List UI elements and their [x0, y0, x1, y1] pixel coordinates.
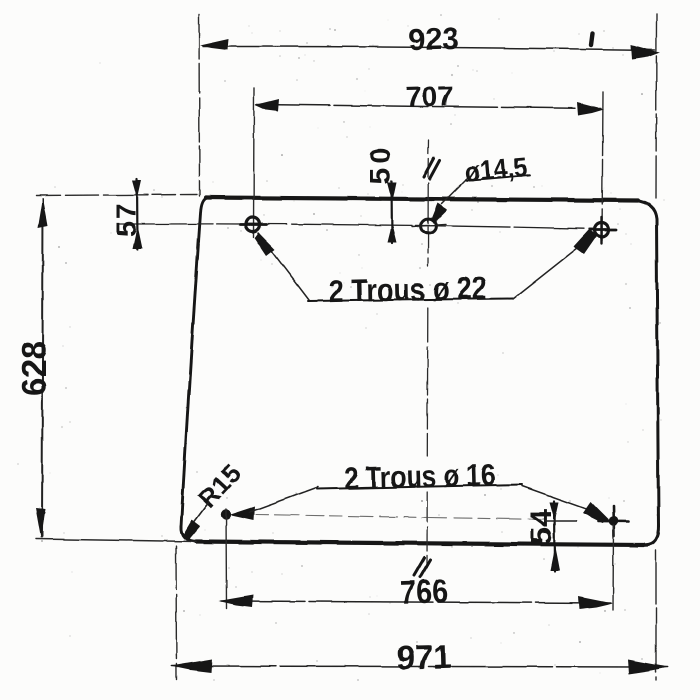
- dim 766: left arrowhead: [219, 595, 254, 607]
- dim 50: lower arrowhead: [388, 223, 398, 243]
- hole bottom-right: filled dot: [609, 516, 619, 526]
- label 2 Trous o16: left leader line: [250, 487, 318, 512]
- svg-text:707: 707: [405, 80, 454, 112]
- svg-text:628: 628: [16, 341, 54, 396]
- label R15: leader arrowhead: [182, 520, 201, 540]
- label 2 Trous o22: left leader arrowhead: [255, 233, 276, 257]
- dim 923: dimension line: [203, 47, 655, 51]
- svg-text:2 Trous ø 22: 2 Trous ø 22: [328, 270, 487, 309]
- svg-text:50: 50: [365, 148, 397, 184]
- dim 707: right extension line: [602, 92, 603, 240]
- dim 628: bottom arrowhead: [36, 508, 46, 539]
- dim 54: hole-level tick: [545, 520, 576, 522]
- dim 57: lower arrowhead: [133, 226, 143, 249]
- label R15: leader line: [191, 502, 209, 526]
- dim 50: upper arrowhead: [387, 182, 397, 202]
- dim 971: left extension line: [175, 546, 178, 680]
- svg-text:2 Trous ø 16: 2 Trous ø 16: [344, 457, 496, 496]
- dim 57: upper arrowhead: [133, 180, 142, 198]
- dim 628: dimension line: [42, 199, 43, 537]
- dim 57: dimension line: [136, 179, 139, 249]
- hole bottom-right: cross ticks: [599, 506, 629, 536]
- label 2 Trous o16: underline: [317, 485, 522, 490]
- svg-text:R15: R15: [192, 458, 246, 513]
- dim 54: lower arrowhead: [550, 546, 560, 571]
- top holes row centerline: [119, 224, 596, 229]
- hole bottom-left: filled dot: [221, 509, 231, 519]
- dim 923: right arrowhead: [631, 45, 660, 60]
- part outline: bottom-left corner: [181, 526, 197, 542]
- dim 971: right extension line: [655, 550, 657, 680]
- label 2 Trous o16: right leader arrowhead: [583, 502, 609, 524]
- vertical centerline: [427, 140, 430, 178]
- svg-text:971: 971: [396, 638, 452, 676]
- part outline: top edge: [206, 198, 638, 201]
- label o14,5: leader arrowhead: [431, 203, 448, 223]
- hole top-right: circle: [595, 223, 609, 237]
- dim 50: dimension line: [390, 181, 393, 243]
- dim 628: top arrowhead: [38, 198, 48, 228]
- dim 628: bottom extension line: [36, 539, 196, 542]
- dim 971: left arrowhead: [171, 659, 213, 673]
- dim 57: top extension (dashed, at top edge level): [36, 195, 197, 196]
- hole top middle: circle: [421, 219, 436, 234]
- svg-text:923: 923: [408, 21, 459, 57]
- label 2 Trous o22: underline: [308, 299, 513, 302]
- bottom holes row line (faint): [256, 515, 545, 520]
- label o14,5: underline: [466, 175, 530, 181]
- hole top-right: vertical tick: [600, 217, 602, 243]
- dim 923: right extension line: [655, 14, 658, 198]
- centerline break mark (bottom): [414, 558, 431, 578]
- dim 707: dimension line: [256, 105, 601, 109]
- centerline break mark (top): [424, 159, 440, 180]
- label 2 Trous o22: right leader arrowhead: [574, 230, 598, 255]
- part outline: top-right corner and right edge: [635, 201, 659, 528]
- dim 707: left arrowhead: [255, 99, 279, 112]
- part outline: bottom-right corner: [645, 525, 659, 545]
- label 2 Trous o22: left leader line: [258, 233, 309, 300]
- dim 54: dimension line: [553, 501, 556, 571]
- dim 766: left extension line: [225, 509, 228, 608]
- hole top-left: circle: [246, 218, 260, 232]
- label 2 Trous o16: left leader arrowhead: [229, 506, 255, 520]
- dim 766: dimension line: [221, 601, 611, 603]
- hole top middle: cross line: [412, 225, 446, 227]
- dim 707: right arrowhead: [577, 103, 604, 116]
- dim 766: right extension line: [612, 525, 615, 610]
- dim 54: upper arrowhead: [550, 502, 559, 520]
- dim 971: right arrowhead: [628, 660, 669, 675]
- dim 971: dimension line: [172, 666, 667, 667]
- dim 766: right arrowhead: [578, 597, 613, 610]
- dim 707: left extension line: [253, 88, 256, 237]
- svg-text:766: 766: [399, 572, 448, 611]
- svg-text:ø14,5: ø14,5: [464, 152, 528, 187]
- part outline: bottom edge: [196, 542, 643, 546]
- label 2 Trous o16: right leader line: [522, 486, 595, 512]
- dim 923: left extension line: [198, 15, 201, 196]
- part outline: left slanted edge and top-left corner: [181, 198, 207, 527]
- label o14,5: leader line: [442, 178, 468, 204]
- dim 923: left arrowhead: [200, 39, 229, 50]
- dim 923: stray tick mark: [591, 34, 593, 46]
- label 2 Trous o22: right leader line: [513, 242, 585, 299]
